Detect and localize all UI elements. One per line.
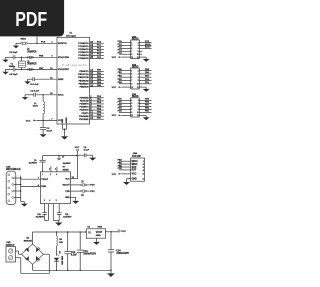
ground at AVCC cap — [22, 95, 28, 100]
svg-text:2: 2 — [138, 70, 139, 72]
svg-text:PB5/SCK: PB5/SCK — [80, 86, 90, 88]
capacitor C3 0.1uF — [40, 120, 53, 134]
svg-text:1000uF/25V: 1000uF/25V — [116, 253, 129, 255]
capacitor C9 10uF/50V — [29, 156, 46, 172]
svg-text:R2OUT: R2OUT — [63, 185, 71, 187]
svg-text:PD7/AIN1: PD7/AIN1 — [79, 118, 89, 121]
svg-text:11: 11 — [131, 115, 133, 117]
svg-text:XTAL2/PB7: XTAL2/PB7 — [58, 68, 70, 71]
CN2 VCC feed — [112, 86, 128, 89]
CN1 right net labels — [142, 41, 151, 49]
svg-text:JUMPER: JUMPER — [27, 64, 37, 66]
svg-text:VCC: VCC — [112, 115, 117, 117]
svg-text:PB2/OC1B: PB2/OC1B — [78, 77, 89, 79]
svg-text:5: 5 — [56, 200, 57, 202]
svg-text:XTAL1/PB6: XTAL1/PB6 — [58, 56, 70, 59]
wire U4 out to VCC — [105, 231, 118, 233]
capacitor C7 10uF (hook) — [49, 156, 71, 172]
CN3 left net labels — [118, 99, 128, 113]
CN3 VCC feed — [112, 115, 128, 118]
connector CN2 — [127, 64, 142, 89]
svg-text:PC4/ADC4: PC4/ADC4 — [78, 54, 89, 57]
svg-text:6: 6 — [138, 106, 139, 108]
svg-text:6: 6 — [55, 168, 56, 170]
svg-text:RATED: RATED — [63, 169, 70, 172]
svg-text:PC0/ADC0: PC0/ADC0 — [78, 42, 89, 45]
svg-text:8: 8 — [138, 51, 139, 53]
svg-text:ADC6: ADC6 — [145, 43, 152, 46]
svg-text:VI: VI — [88, 232, 91, 234]
jumper J4 on T2IN — [71, 190, 90, 197]
svg-text:AGND: AGND — [65, 117, 68, 123]
svg-text:0.1uF: 0.1uF — [47, 131, 53, 133]
CN4 VCC feed — [112, 173, 128, 176]
svg-text:PC2/ADC2: PC2/ADC2 — [78, 48, 89, 51]
svg-text:10: 10 — [137, 84, 139, 86]
svg-text:10: 10 — [137, 54, 139, 56]
svg-text:2: 2 — [44, 200, 45, 202]
svg-text:C5 33pF: C5 33pF — [9, 52, 18, 54]
node VCC above U2 — [75, 147, 80, 179]
svg-text:DB9 FEMALE: DB9 FEMALE — [6, 168, 21, 171]
CN3 right net labels — [142, 99, 151, 113]
svg-text:D2: D2 — [60, 251, 62, 253]
svg-text:12: 12 — [137, 87, 139, 89]
svg-text:BRIDGE: BRIDGE — [24, 240, 33, 242]
svg-text:MISO: MISO — [132, 164, 138, 166]
wire XTAL2 row — [6, 68, 58, 70]
ground at bottom rail — [107, 270, 115, 277]
svg-text:1: 1 — [42, 174, 43, 176]
inductor L1 10uH — [33, 95, 45, 121]
svg-text:10: 10 — [137, 112, 139, 114]
CN3 ground — [142, 115, 149, 120]
wire bridge - to bottom rail — [33, 264, 112, 271]
svg-text:C4 33pF: C4 33pF — [9, 73, 18, 76]
wire RST to U1 pin1 — [16, 37, 57, 44]
U1 left pin labels — [50, 42, 70, 122]
ground at AREF cap — [24, 79, 30, 84]
svg-text:PB1/OC1A: PB1/OC1A — [78, 73, 89, 76]
CN1 VCC feed — [112, 56, 128, 59]
svg-text:RES1: RES1 — [21, 38, 27, 40]
svg-text:AVR ISP: AVR ISP — [132, 155, 141, 158]
svg-text:GND: GND — [65, 197, 70, 199]
svg-text:1000uF/25V: 1000uF/25V — [83, 254, 96, 256]
svg-text:PD3/INT1: PD3/INT1 — [79, 107, 89, 109]
ground at C3 — [40, 134, 47, 137]
svg-text:PC5/ADC5: PC5/ADC5 — [78, 57, 89, 60]
op-amp U1 ATmega8 — [57, 33, 90, 124]
ground at C4 — [2, 69, 8, 74]
svg-text:11: 11 — [131, 87, 133, 89]
capacitor C5 33pF — [9, 52, 18, 60]
jumper J1 — [27, 49, 37, 58]
svg-text:C6 0.1uF: C6 0.1uF — [30, 84, 39, 86]
wire bridge + to top rail — [33, 231, 87, 244]
svg-text:8: 8 — [138, 80, 139, 82]
wire DB9 to U2 T2OUT — [21, 178, 41, 180]
svg-text:10uF/50V: 10uF/50V — [36, 217, 45, 219]
svg-text:10uF/50V: 10uF/50V — [63, 217, 72, 219]
CN1 left net labels — [118, 41, 128, 55]
wire CN5 pin2 to bridge (around) — [16, 254, 50, 273]
svg-text:VCC: VCC — [112, 57, 117, 59]
svg-text:VCC: VCC — [112, 87, 117, 89]
ground at C8 — [89, 155, 96, 160]
wire top rail to VCC node — [43, 155, 78, 157]
svg-text:JUMPER: JUMPER — [27, 52, 37, 54]
capacitor C6 0.1uF (AREF) — [28, 77, 58, 86]
svg-text:GND: GND — [62, 118, 64, 123]
svg-text:SCK: SCK — [132, 167, 137, 169]
wire CN5 pin1 to bridge — [16, 251, 22, 254]
svg-text:VCC: VCC — [132, 174, 137, 176]
svg-text:C2 0.1uF: C2 0.1uF — [31, 90, 40, 92]
capacitor C11 10uF/50V — [53, 204, 72, 221]
svg-text:0.1uF: 0.1uF — [84, 150, 90, 152]
svg-text:C7: C7 — [62, 157, 64, 159]
wire DB9 to U2 R2IN — [21, 185, 41, 187]
connector CN3 — [127, 94, 142, 117]
svg-text:C14: C14 — [116, 250, 121, 253]
CN4 signal nets — [118, 159, 128, 170]
svg-text:GND: GND — [96, 235, 101, 237]
ground at U2 GND pin — [71, 197, 80, 204]
svg-text:PD4/XCK: PD4/XCK — [80, 109, 90, 112]
LED D2 — [54, 251, 64, 270]
svg-text:ADC7: ADC7 — [145, 46, 152, 49]
svg-text:PD5/T1: PD5/T1 — [82, 113, 90, 115]
svg-text:PB4/MISO: PB4/MISO — [79, 82, 89, 85]
svg-text:10uF/50V: 10uF/50V — [63, 163, 72, 165]
DB9 pin stubs to bus — [14, 176, 22, 202]
CN2 right net labels — [142, 69, 151, 84]
svg-text:6: 6 — [49, 200, 50, 202]
CN2 ground — [142, 87, 149, 92]
svg-text:R2IN: R2IN — [41, 186, 46, 188]
svg-text:VCC: VCC — [26, 121, 31, 123]
svg-text:PB0/ICP1: PB0/ICP1 — [79, 71, 89, 73]
ground below U2 caps — [55, 221, 62, 226]
svg-text:h.eb.eg.com: h.eb.eg.com — [62, 65, 87, 67]
node VCC output — [118, 230, 126, 233]
connector CN5 DC supply — [6, 242, 16, 262]
svg-text:VCC: VCC — [121, 231, 126, 233]
svg-text:2: 2 — [49, 168, 50, 170]
ground at C5 — [2, 57, 8, 62]
CN4 ground — [123, 179, 130, 185]
svg-text:10uF/50V: 10uF/50V — [29, 162, 38, 164]
svg-text:6: 6 — [138, 77, 139, 79]
svg-text:PD2/INT0: PD2/INT0 — [79, 104, 89, 106]
svg-text:11: 11 — [131, 57, 133, 59]
svg-text:RST/PC6: RST/PC6 — [58, 43, 68, 45]
capacitor C10 10uF/50V — [36, 204, 49, 221]
U1 right pins PB0-PB5 — [78, 69, 104, 88]
resistor R8 — [57, 232, 64, 256]
svg-text:VCC: VCC — [65, 178, 70, 180]
svg-text:MOSI: MOSI — [132, 161, 138, 163]
ground at U4 — [93, 238, 100, 245]
svg-text:RST: RST — [132, 170, 137, 172]
U1 right pins PC0-PC5 — [78, 42, 103, 61]
svg-text:16MHz: 16MHz — [9, 66, 16, 68]
regulator U4 7805 — [85, 226, 105, 239]
svg-text:12: 12 — [137, 57, 139, 59]
capacitor C12 0.1uF — [65, 232, 78, 270]
svg-text:VCC: VCC — [75, 147, 80, 149]
svg-text:3: 3 — [50, 174, 51, 176]
svg-text:VCC: VCC — [112, 174, 117, 176]
capacitor C4 33pF — [9, 67, 18, 76]
capacitor C8 0.1uF — [78, 147, 93, 157]
svg-text:PB3/MOSI: PB3/MOSI — [79, 80, 89, 82]
CN2 left net labels — [118, 69, 128, 84]
jumper J2 — [27, 61, 37, 70]
jumper J3 on R2OUT — [71, 181, 90, 186]
connector CN6 DB9 FEMALE — [6, 166, 21, 204]
PDF badge overlay — [0, 0, 64, 36]
ground at DB9 bus — [21, 202, 28, 207]
node PD1 — [90, 191, 95, 193]
svg-text:AREF: AREF — [58, 78, 64, 81]
svg-text:PC1/ADC1: PC1/ADC1 — [78, 45, 89, 48]
U1 right pins PD0-PD7 — [79, 96, 104, 121]
capacitor C2 0.1uF (AVCC) — [25, 90, 57, 96]
svg-text:T2IN: T2IN — [65, 191, 70, 193]
svg-text:10uH: 10uH — [33, 106, 39, 108]
resistor RES1 (reset pull-up) — [21, 38, 28, 44]
svg-text:T2OUT: T2OUT — [41, 179, 49, 181]
svg-text:GND: GND — [132, 178, 137, 180]
svg-text:0.1uF: 0.1uF — [71, 254, 78, 256]
svg-text:2: 2 — [138, 42, 139, 44]
svg-text:2: 2 — [138, 100, 139, 102]
connector CN4 AVR ISP — [127, 152, 144, 181]
wire U2 VCC pin — [71, 177, 78, 179]
capacitor C13 1000uF/25V — [77, 232, 97, 270]
node PD0 — [90, 185, 95, 187]
svg-text:ATmega8: ATmega8 — [66, 34, 76, 37]
CN1 ground — [142, 57, 149, 62]
capacitor C14 1000uF/25V — [108, 232, 130, 270]
svg-text:AVCC: AVCC — [58, 94, 64, 97]
power arrow at RES1 — [13, 43, 19, 48]
svg-text:PD1/TXD: PD1/TXD — [80, 101, 89, 103]
svg-text:12: 12 — [137, 115, 139, 117]
node VCC into U1 pin7 — [26, 119, 57, 122]
op-amp U2 MAX232 — [41, 172, 71, 204]
svg-text:8: 8 — [138, 109, 139, 111]
svg-text:PD6/AIN0: PD6/AIN0 — [79, 115, 89, 118]
crystal Y1 16MHz — [9, 57, 26, 69]
svg-text:PC3/ADC3: PC3/ADC3 — [78, 51, 89, 54]
svg-text:6: 6 — [138, 48, 139, 50]
connector CN1 — [127, 36, 142, 58]
svg-text:PD0/RXD: PD0/RXD — [80, 98, 90, 100]
bridge rectifier B1 — [22, 238, 44, 265]
wire XTAL1 row — [6, 56, 58, 58]
svg-text:RED 5MM: RED 5MM — [62, 256, 64, 265]
U1 GND/AGND pins to ground — [61, 117, 68, 140]
svg-text:PDF: PDF — [15, 8, 47, 31]
svg-text:VOUT: VOUT — [96, 232, 103, 234]
